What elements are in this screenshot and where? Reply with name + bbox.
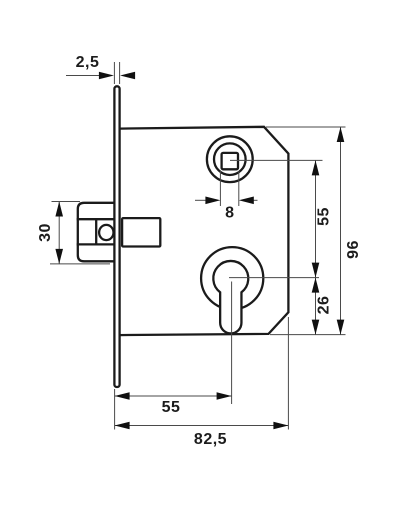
dim 55 bottom right arrow xyxy=(217,392,232,400)
extension line from cylinder centre down xyxy=(231,282,233,405)
svg-text:96: 96 xyxy=(345,240,362,259)
dim 82,5 left arrow xyxy=(115,422,130,430)
svg-text:30: 30 xyxy=(37,223,54,242)
lock case body xyxy=(119,127,288,335)
dim 55 bottom line xyxy=(115,395,232,397)
svg-text:55: 55 xyxy=(162,399,181,416)
dim 30 up arrow xyxy=(55,202,63,217)
svg-text:82,5: 82,5 xyxy=(194,431,227,448)
cylinder rose outer circle xyxy=(201,247,263,309)
dim 26 up arrow xyxy=(312,278,320,293)
extension line from cylinder centre xyxy=(229,277,319,279)
extension line below faceplate xyxy=(114,389,116,430)
follower square spindle hole 8mm xyxy=(222,153,238,169)
dim 26 line xyxy=(315,278,317,335)
dim 96 up arrow xyxy=(337,127,345,142)
dim 96 down arrow xyxy=(337,320,345,335)
dim 2,5 left arrow xyxy=(99,72,114,80)
extension line from case top to right xyxy=(266,126,346,128)
svg-text:26: 26 xyxy=(315,296,332,315)
follower inner circle xyxy=(214,143,246,175)
svg-text:55: 55 xyxy=(315,207,332,226)
latch internal line top xyxy=(77,218,115,220)
dim 2,5 leader line xyxy=(66,75,99,77)
latch internal line bottom xyxy=(77,243,115,245)
dim 8 left arrow xyxy=(205,197,220,205)
latch internal vertical line xyxy=(95,219,97,244)
dim 82,5 line xyxy=(115,425,289,427)
dim 55 right down arrow xyxy=(312,263,320,278)
latch bolt head (left of faceplate) xyxy=(78,203,117,261)
dim 30 down arrow xyxy=(55,249,63,264)
faceplate xyxy=(114,86,119,387)
dim 55 right up arrow xyxy=(312,160,320,175)
dim 8 leader lines xyxy=(195,199,207,201)
dim 55 right line xyxy=(315,160,317,277)
dim 82,5 right arrow xyxy=(273,422,288,430)
dim 96 line xyxy=(340,127,342,335)
dim 8 right arrow xyxy=(239,197,254,205)
dim 55 bottom left arrow xyxy=(115,392,130,400)
latch tail rectangle inside case xyxy=(122,218,160,246)
dim 2,5 right arrow xyxy=(120,72,135,80)
dim 2,5 extension lines xyxy=(113,62,115,84)
dim 30 top extension line xyxy=(52,201,81,203)
follower outer circle xyxy=(207,136,253,182)
extension line from follower centre xyxy=(230,159,323,161)
extension line from case bottom to right xyxy=(270,334,346,336)
svg-text:8: 8 xyxy=(225,205,234,222)
dim 8 extension lines xyxy=(219,171,221,206)
svg-text:2,5: 2,5 xyxy=(76,54,100,71)
extension line from case right down xyxy=(287,317,289,430)
dim 30 bottom extension line xyxy=(50,263,110,265)
dim 26 down arrow xyxy=(312,320,320,335)
latch roller circle xyxy=(99,225,113,240)
europrofile keyhole xyxy=(213,261,248,334)
dim 30 line xyxy=(58,202,60,264)
